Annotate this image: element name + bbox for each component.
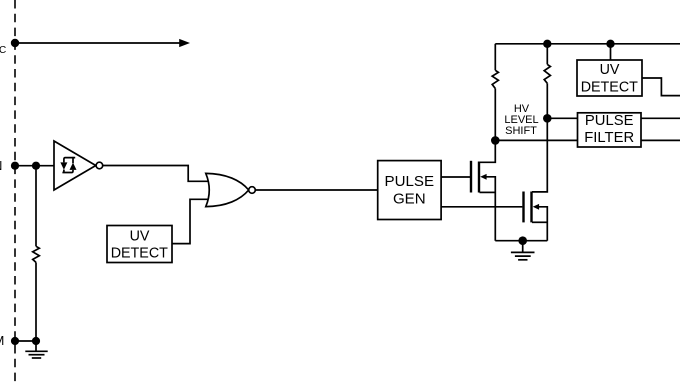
svg-text:UV: UV [130, 228, 150, 244]
resistor Rin (IN pulldown) [33, 166, 40, 341]
resistor R2 (lower MOSFET drain load) [544, 44, 550, 119]
node IN junction dot [32, 162, 40, 170]
svg-text:N: N [0, 158, 2, 173]
svg-text:DETECT: DETECT [111, 245, 168, 261]
node COM dot at boundary [11, 337, 19, 345]
svg-text:M: M [0, 333, 4, 348]
wire floating supply top rail [495, 43, 680, 45]
wire COM [15, 340, 36, 342]
svg-text:UV: UV [600, 62, 620, 78]
wire PULSE FILTER bottom output [641, 139, 680, 141]
wire PULSE FILTER top output [641, 117, 680, 119]
wire PULSE GEN bottom output to Q2 gate [441, 206, 522, 208]
label HV LEVEL SHIFT [504, 103, 538, 137]
wire source rail of Q1/Q2 [495, 240, 547, 242]
svg-text:DETECT: DETECT [581, 80, 638, 96]
svg-text:C: C [0, 45, 6, 56]
wire VCC arrow from pin C [15, 42, 181, 44]
UV DETECT box (high side) [577, 60, 642, 96]
wire NOR output to PULSE GEN [255, 189, 377, 191]
PULSE FILTER box [578, 113, 642, 147]
wire R2/Q2 drain node to PULSE FILTER [547, 117, 577, 119]
output bubble of U2 [249, 187, 256, 194]
wire UV DETECT to NOR bottom input [172, 199, 209, 243]
output bubble of U1 [96, 162, 103, 169]
transistor Q1 (upper level-shift MOSFET) [471, 140, 495, 240]
wire R1/Q1 drain node to PULSE FILTER [495, 139, 577, 141]
node VCC dot [11, 39, 19, 47]
inverter U1 (Schmitt trigger input) [54, 141, 96, 190]
node IN dot at boundary [11, 162, 19, 170]
node level-shift lower dot [491, 136, 500, 145]
transistor Q2 (lower level-shift MOSFET) [524, 118, 548, 240]
node rail dot at UV detect [606, 40, 614, 48]
svg-text:GEN: GEN [393, 191, 426, 208]
UV DETECT box (input side) [107, 226, 172, 263]
IC boundary dashed line [14, 0, 16, 382]
node COM junction dot [32, 337, 40, 345]
wire UV DETECT (high side) input from rail [610, 44, 612, 60]
resistor R1 (upper MOSFET drain load) [492, 44, 498, 141]
wire IN to inverter input [15, 165, 55, 167]
wire PULSE GEN top output to Q1 gate [441, 176, 470, 178]
gate U2 NOR [206, 173, 249, 206]
PULSE GEN box [378, 161, 441, 220]
ground (level shift source) [511, 241, 535, 260]
node level-shift upper dot [543, 114, 552, 123]
ground (COM) [25, 341, 47, 358]
hysteresis symbol inside U1 [60, 157, 76, 173]
svg-text:FILTER: FILTER [584, 130, 634, 146]
svg-text:PULSE: PULSE [585, 113, 634, 129]
svg-text:SHIFT: SHIFT [505, 125, 537, 137]
node source-rail dot [518, 236, 527, 245]
wire U1 output to NOR top input [103, 166, 209, 182]
node rail dot at R2 [543, 40, 551, 48]
wire UV DETECT output jog [642, 78, 680, 96]
svg-text:PULSE: PULSE [385, 173, 435, 190]
